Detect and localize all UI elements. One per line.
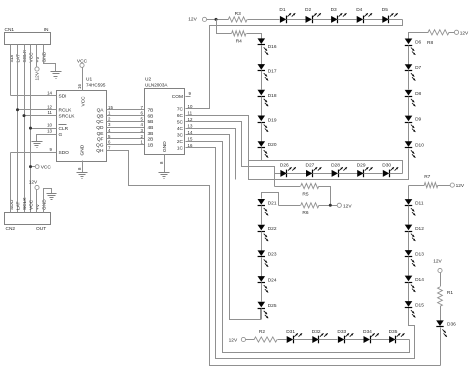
svg-text:GND: GND <box>41 51 47 62</box>
svg-text:1B: 1B <box>148 142 154 148</box>
svg-text:+V: +V <box>35 56 41 63</box>
svg-text:QB: QB <box>97 113 104 119</box>
svg-text:3B: 3B <box>148 131 154 137</box>
svg-text:5C: 5C <box>177 120 184 126</box>
svg-text:IN: IN <box>44 27 49 33</box>
svg-text:3C: 3C <box>177 133 184 139</box>
svg-text:2B: 2B <box>148 137 154 143</box>
svg-text:D10: D10 <box>415 142 424 148</box>
svg-text:12V: 12V <box>433 259 442 265</box>
svg-text:D17: D17 <box>268 69 277 75</box>
svg-text:VCC: VCC <box>80 96 86 107</box>
svg-text:7C: 7C <box>177 107 184 113</box>
svg-text:15: 15 <box>188 136 193 141</box>
svg-text:13: 13 <box>188 123 193 128</box>
svg-text:4B: 4B <box>148 125 154 131</box>
svg-text:CLR: CLR <box>59 126 69 132</box>
svg-text:12V: 12V <box>35 71 41 80</box>
svg-text:D13: D13 <box>415 251 424 257</box>
svg-text:D9: D9 <box>415 117 421 123</box>
svg-text:D32: D32 <box>312 329 321 335</box>
svg-text:CN2: CN2 <box>6 226 16 232</box>
svg-text:D7: D7 <box>415 65 421 71</box>
svg-text:D28: D28 <box>331 162 340 168</box>
svg-text:6: 6 <box>108 140 111 145</box>
svg-text:9: 9 <box>50 147 53 152</box>
svg-text:D8: D8 <box>415 91 421 97</box>
svg-text:SDO: SDO <box>9 199 15 210</box>
svg-text:5B: 5B <box>148 119 154 125</box>
svg-text:D33: D33 <box>337 329 346 335</box>
svg-text:8: 8 <box>159 161 164 164</box>
svg-text:D27: D27 <box>306 162 315 168</box>
svg-text:D29: D29 <box>357 162 366 168</box>
svg-text:VCC: VCC <box>41 164 52 170</box>
svg-text:G: G <box>59 132 63 138</box>
svg-text:SDO: SDO <box>59 150 70 156</box>
svg-text:D24: D24 <box>268 277 277 283</box>
svg-text:8: 8 <box>77 167 82 170</box>
svg-text:R5: R5 <box>302 191 308 197</box>
svg-text:+V: +V <box>35 203 41 210</box>
svg-text:13: 13 <box>47 129 52 134</box>
svg-text:12: 12 <box>47 104 52 109</box>
svg-text:D3: D3 <box>331 7 337 13</box>
svg-text:D36: D36 <box>447 321 456 327</box>
svg-text:D23: D23 <box>268 252 277 258</box>
svg-text:5: 5 <box>141 116 144 121</box>
svg-text:RCLK: RCLK <box>59 108 73 114</box>
svg-text:R6: R6 <box>302 210 308 216</box>
svg-text:6: 6 <box>141 111 144 116</box>
svg-text:1: 1 <box>108 111 111 116</box>
svg-text:12V: 12V <box>460 30 469 36</box>
svg-text:D25: D25 <box>268 303 277 309</box>
svg-text:12V: 12V <box>229 338 238 344</box>
svg-text:QF: QF <box>97 137 104 143</box>
svg-text:74HC595: 74HC595 <box>86 83 106 88</box>
svg-text:D11: D11 <box>415 200 424 206</box>
svg-text:COM: COM <box>172 94 183 100</box>
svg-text:14: 14 <box>47 90 52 95</box>
svg-text:VCC: VCC <box>28 52 34 63</box>
svg-text:D1: D1 <box>279 7 285 13</box>
svg-text:6C: 6C <box>177 113 184 119</box>
svg-text:LAT: LAT <box>15 54 21 63</box>
svg-text:SRCLK: SRCLK <box>59 113 76 119</box>
svg-text:4: 4 <box>141 122 144 127</box>
svg-text:1C: 1C <box>177 146 184 152</box>
svg-text:7B: 7B <box>148 108 154 114</box>
svg-text:QG: QG <box>96 142 104 148</box>
svg-text:2C: 2C <box>177 139 184 145</box>
svg-text:QC: QC <box>96 119 104 125</box>
svg-text:12V: 12V <box>343 203 352 209</box>
svg-text:D30: D30 <box>382 162 391 168</box>
svg-text:10: 10 <box>47 123 52 128</box>
svg-text:QE: QE <box>97 131 104 137</box>
svg-text:CN1: CN1 <box>5 27 15 33</box>
svg-text:D34: D34 <box>363 329 372 335</box>
svg-text:D20: D20 <box>268 142 277 148</box>
svg-text:R1: R1 <box>447 290 453 296</box>
svg-text:D31: D31 <box>286 329 295 335</box>
svg-text:12V: 12V <box>188 16 197 22</box>
svg-text:LAT: LAT <box>15 201 21 210</box>
svg-text:GND: GND <box>80 144 86 155</box>
svg-text:R2: R2 <box>259 329 265 335</box>
svg-text:D12: D12 <box>415 226 424 232</box>
svg-text:2: 2 <box>108 116 111 121</box>
svg-text:4C: 4C <box>177 126 184 132</box>
svg-text:D18: D18 <box>268 93 277 99</box>
svg-text:D21: D21 <box>268 200 277 206</box>
svg-text:SDI: SDI <box>59 94 67 100</box>
svg-text:9: 9 <box>189 91 192 96</box>
svg-text:R7: R7 <box>424 174 430 180</box>
svg-text:12V: 12V <box>29 179 38 185</box>
svg-text:D4: D4 <box>356 7 362 13</box>
svg-text:VCC: VCC <box>77 58 88 64</box>
svg-text:R8: R8 <box>427 40 433 46</box>
svg-text:D14: D14 <box>415 277 424 283</box>
svg-text:SDI: SDI <box>9 55 15 63</box>
svg-text:GND: GND <box>162 141 168 152</box>
svg-text:D26: D26 <box>280 162 289 168</box>
svg-text:R3: R3 <box>235 11 241 17</box>
svg-text:D22: D22 <box>268 226 277 232</box>
svg-text:D6: D6 <box>415 40 421 46</box>
svg-text:SCLK: SCLK <box>22 197 28 210</box>
svg-text:D15: D15 <box>415 302 424 308</box>
svg-text:GND: GND <box>41 199 47 210</box>
svg-text:D5: D5 <box>382 7 388 13</box>
svg-text:6B: 6B <box>148 113 154 119</box>
svg-text:ULN2003A: ULN2003A <box>145 83 168 88</box>
svg-text:11: 11 <box>188 110 193 115</box>
svg-text:D35: D35 <box>389 329 398 335</box>
svg-text:D19: D19 <box>268 118 277 124</box>
svg-text:12V: 12V <box>456 183 465 189</box>
svg-text:QD: QD <box>96 125 104 131</box>
svg-text:7: 7 <box>108 145 111 150</box>
svg-text:11: 11 <box>47 110 52 115</box>
svg-text:1: 1 <box>141 140 144 145</box>
svg-text:3: 3 <box>108 122 111 127</box>
svg-text:R4: R4 <box>236 38 242 44</box>
svg-text:QH: QH <box>96 148 104 154</box>
svg-text:D16: D16 <box>268 44 277 50</box>
svg-text:OUT: OUT <box>36 226 46 232</box>
svg-text:VCC: VCC <box>28 199 34 210</box>
svg-text:QA: QA <box>97 108 105 114</box>
svg-text:D2: D2 <box>305 7 311 13</box>
svg-text:16: 16 <box>77 84 82 89</box>
